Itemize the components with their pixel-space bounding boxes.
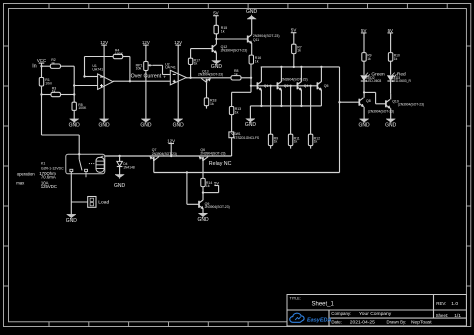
svg-text:1k: 1k	[51, 61, 55, 65]
svg-text:1N4148: 1N4148	[123, 166, 135, 170]
svg-text:LED-0603_R: LED-0603_R	[392, 79, 412, 83]
svg-text:REV:: REV:	[436, 301, 446, 306]
svg-text:TITLE:: TITLE:	[290, 297, 301, 301]
svg-text:Company:: Company:	[331, 311, 351, 316]
svg-text:UA741: UA741	[92, 67, 103, 71]
svg-text:K1: K1	[41, 161, 45, 165]
svg-text:GND: GND	[140, 122, 152, 128]
svg-text:100K: 100K	[78, 106, 87, 110]
svg-text:12V: 12V	[174, 40, 182, 45]
svg-text:Q4: Q4	[304, 84, 309, 88]
svg-text:Q5: Q5	[324, 84, 329, 88]
svg-text:5V: 5V	[214, 181, 219, 186]
svg-text:2N3904(SOT-23): 2N3904(SOT-23)	[152, 152, 177, 156]
svg-text:1k: 1k	[314, 140, 318, 144]
svg-text:1k: 1k	[367, 57, 371, 61]
svg-text:Q8: Q8	[366, 99, 371, 103]
svg-text:(2N3904(SOT-23): (2N3904(SOT-23)	[398, 102, 424, 106]
svg-text:GND: GND	[246, 9, 258, 15]
svg-text:5V: 5V	[361, 28, 366, 33]
svg-text:GND: GND	[245, 122, 257, 128]
svg-text:GND: GND	[211, 64, 223, 70]
svg-text:1k: 1k	[274, 140, 278, 144]
svg-text:In: In	[32, 64, 36, 70]
svg-text:Sheet:: Sheet:	[436, 313, 448, 318]
svg-text:1k: 1k	[255, 60, 259, 64]
svg-text:+: +	[163, 74, 166, 79]
svg-text:1.0: 1.0	[451, 301, 458, 307]
svg-text:GND: GND	[66, 218, 78, 224]
svg-text:VCC: VCC	[37, 58, 46, 63]
svg-text:UA741: UA741	[165, 66, 176, 70]
svg-text:Sheet_1: Sheet_1	[312, 301, 335, 307]
svg-text:GND: GND	[385, 122, 397, 128]
svg-text:operation: operation	[17, 171, 36, 176]
svg-text:125VDC: 125VDC	[41, 184, 57, 189]
svg-text:2N3904(SOT-23): 2N3904(SOT-23)	[198, 73, 223, 77]
svg-text:2N3904(SOT-23): 2N3904(SOT-23)	[205, 205, 230, 209]
svg-text:max: max	[16, 181, 25, 186]
svg-text:GND: GND	[359, 122, 371, 128]
svg-text:GND: GND	[197, 217, 209, 223]
svg-text:1k: 1k	[294, 140, 298, 144]
svg-text:70.6mA: 70.6mA	[41, 174, 56, 179]
svg-text:Date:: Date:	[331, 319, 342, 324]
svg-text:NepToast: NepToast	[411, 319, 432, 325]
svg-text:12V: 12V	[167, 138, 175, 143]
svg-text:GND: GND	[173, 122, 185, 128]
svg-text:1k: 1k	[52, 90, 56, 94]
svg-text:1k: 1k	[394, 57, 398, 61]
svg-text:2N3904(SOT-23): 2N3904(SOT-23)	[281, 77, 308, 81]
svg-text:1k: 1k	[221, 29, 225, 33]
svg-text:G2R-1-12VDC: G2R-1-12VDC	[41, 166, 64, 170]
svg-text:10k: 10k	[136, 67, 142, 71]
svg-text:1k: 1k	[206, 184, 210, 188]
svg-text:2N3904(SOT-23): 2N3904(SOT-23)	[200, 152, 225, 156]
svg-text:5V: 5V	[213, 11, 218, 16]
svg-text:12V: 12V	[142, 40, 150, 45]
svg-text:(2N3904(SOT-23): (2N3904(SOT-23)	[368, 110, 394, 114]
svg-text:Drawn By:: Drawn By:	[387, 319, 407, 324]
svg-text:1k: 1k	[210, 102, 214, 106]
svg-text:Q11: Q11	[253, 38, 259, 42]
svg-text:1k: 1k	[235, 111, 239, 115]
svg-text:2N3904(SOT-23): 2N3904(SOT-23)	[221, 48, 248, 52]
svg-text:GND: GND	[99, 122, 111, 128]
svg-text:100K: 100K	[115, 52, 124, 56]
svg-text:GND: GND	[69, 122, 81, 128]
svg-text:1k: 1k	[194, 62, 198, 66]
svg-text:Load: Load	[98, 199, 109, 205]
svg-text:EasyEDA: EasyEDA	[307, 318, 331, 324]
svg-text:1k: 1k	[297, 49, 301, 53]
svg-text:4TS2D1GNCLFS: 4TS2D1GNCLFS	[234, 136, 260, 140]
svg-text:2021-04-25: 2021-04-25	[350, 319, 375, 325]
svg-text:Q1: Q1	[264, 84, 269, 88]
svg-text:5V: 5V	[291, 28, 296, 33]
svg-text:LED-0603: LED-0603	[366, 79, 381, 83]
svg-text:12V: 12V	[100, 40, 108, 45]
svg-text:10m: 10m	[45, 81, 52, 85]
svg-text:Relay NC: Relay NC	[209, 161, 232, 167]
svg-text:Q3: Q3	[284, 84, 289, 88]
svg-text:5V: 5V	[388, 28, 393, 33]
svg-text:Your Company: Your Company	[359, 311, 392, 317]
svg-text:1/1: 1/1	[454, 313, 461, 319]
svg-text:1k: 1k	[234, 72, 238, 76]
svg-text:GND: GND	[114, 183, 126, 189]
